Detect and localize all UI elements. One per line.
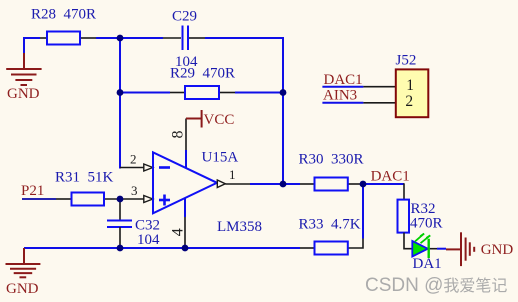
resistor R29 <box>185 86 219 99</box>
power VCC symbol <box>186 110 202 128</box>
wire node D to R30 <box>283 183 300 185</box>
ground GND bottom-left symbol <box>6 264 41 277</box>
svg-text:U15A: U15A <box>202 150 239 166</box>
pin 3 arrow <box>144 196 153 203</box>
ground GND top-left symbol <box>6 53 41 85</box>
svg-text:AIN3: AIN3 <box>323 88 357 104</box>
wire R29 to right rail <box>235 92 283 94</box>
svg-text:R30 330R: R30 330R <box>299 152 364 168</box>
pin 8 wire <box>185 119 187 151</box>
wire LED to GND (blue) <box>437 248 446 250</box>
wire right rail down to output node <box>282 93 284 185</box>
resistor R30 pins <box>300 183 315 185</box>
junction C32 bottom (120,248) <box>117 245 124 252</box>
resistor R33 <box>315 242 348 255</box>
svg-text:1: 1 <box>229 167 236 182</box>
op-amp U15A triangle <box>153 152 217 213</box>
capacitor C32 <box>107 221 132 228</box>
wire node A down to node B <box>119 38 121 93</box>
capacitor C29 pins <box>163 37 181 39</box>
svg-text:470R: 470R <box>410 216 443 232</box>
svg-text:1: 1 <box>406 77 414 94</box>
wire R32 to LED <box>404 233 412 249</box>
wire R28 to node A <box>96 37 120 39</box>
wire DAC1 to J52 <box>322 86 363 88</box>
resistor R30 <box>315 178 348 191</box>
junction right rail at R29 (283,92.5) <box>280 89 287 96</box>
pin wire R32 top (black) <box>403 183 405 199</box>
svg-text:CSDN @我爱笔记: CSDN @我爱笔记 <box>365 275 507 296</box>
connector J52 pin 2 wire <box>363 102 395 104</box>
pin 1 wire <box>225 183 250 185</box>
junction pin4 bottom (185,248) <box>182 245 189 252</box>
ground GND right symbol (rotated) <box>461 232 474 266</box>
bottom rail wire <box>24 247 300 249</box>
LED DA1 triangle <box>412 241 428 257</box>
svg-text:LM358: LM358 <box>217 219 262 235</box>
LED DA1 emission arrows <box>415 234 430 244</box>
svg-text:R29 470R: R29 470R <box>170 66 235 82</box>
wire AIN3 to J52 <box>322 102 363 104</box>
junction node C at R31/pin3 (120,199) <box>117 196 124 203</box>
op-amp minus input symbol <box>159 166 170 169</box>
resistor R29 pins <box>170 92 185 94</box>
svg-text:4: 4 <box>170 228 187 236</box>
connector J52 pin 1 wire <box>363 86 395 88</box>
pin 4 blue segment <box>184 198 186 217</box>
resistor R33 pins <box>300 247 315 249</box>
ground GND bottom-left stub <box>23 248 25 264</box>
junction node D at output (283,184) <box>280 181 287 188</box>
wire pin 8 blue segment <box>185 150 187 168</box>
resistor R28 <box>47 32 80 45</box>
capacitor C29 <box>183 26 189 51</box>
svg-text:J52: J52 <box>396 53 417 69</box>
ground GND right stub <box>446 248 461 250</box>
wire LED to GND (black) <box>430 248 437 250</box>
svg-text:GND: GND <box>481 242 514 258</box>
resistor R28 pins <box>40 37 47 39</box>
pin 2 wire <box>120 167 144 169</box>
op-amp plus input symbol <box>159 195 170 206</box>
svg-text:GND: GND <box>6 281 39 297</box>
junction node B (120,92.5) <box>117 89 124 96</box>
connector J52 body <box>396 69 429 117</box>
svg-text:DAC1: DAC1 <box>371 169 410 185</box>
svg-text:R31 51K: R31 51K <box>55 170 114 186</box>
wire top-left GND riser <box>24 38 40 53</box>
wire output to node D <box>250 183 283 185</box>
pin 3 wire <box>120 198 144 200</box>
svg-text:DA1: DA1 <box>413 256 442 272</box>
svg-text:C29: C29 <box>172 9 197 25</box>
svg-text:2: 2 <box>130 152 137 167</box>
svg-text:R33 4.7K: R33 4.7K <box>299 217 361 233</box>
svg-text:VCC: VCC <box>204 112 235 128</box>
svg-text:3: 3 <box>131 183 138 198</box>
LED DA1 cathode bar <box>428 239 430 258</box>
svg-text:GND: GND <box>7 86 40 102</box>
svg-text:8: 8 <box>170 131 187 139</box>
wire node B to R29 <box>120 92 170 94</box>
resistor R31 pins <box>56 198 72 200</box>
resistor R32 <box>398 200 410 233</box>
junction node A (120,38) <box>117 35 124 42</box>
wire node E to R32 corner <box>363 183 404 185</box>
wire C29 to right rail corner <box>205 38 283 93</box>
svg-text:104: 104 <box>137 232 160 248</box>
svg-text:P21: P21 <box>21 183 44 199</box>
resistor R31 <box>72 193 105 206</box>
svg-text:R28 470R: R28 470R <box>31 7 96 23</box>
capacitor C32 top pin <box>119 199 121 220</box>
junction node E DAC1 (363,184) <box>360 181 367 188</box>
wire node B down and to pin 2 <box>120 93 121 168</box>
svg-text:2: 2 <box>405 93 413 110</box>
wire P21 <box>22 198 56 200</box>
wire R33 up to node E <box>362 184 364 239</box>
pin 4 wire <box>184 217 186 248</box>
pin 2 arrow <box>144 164 153 171</box>
capacitor C32 bottom pin <box>119 227 121 248</box>
pin 1 output arrow <box>217 180 225 188</box>
svg-text:DAC1: DAC1 <box>324 72 363 88</box>
wire node A to C29 <box>120 37 163 39</box>
